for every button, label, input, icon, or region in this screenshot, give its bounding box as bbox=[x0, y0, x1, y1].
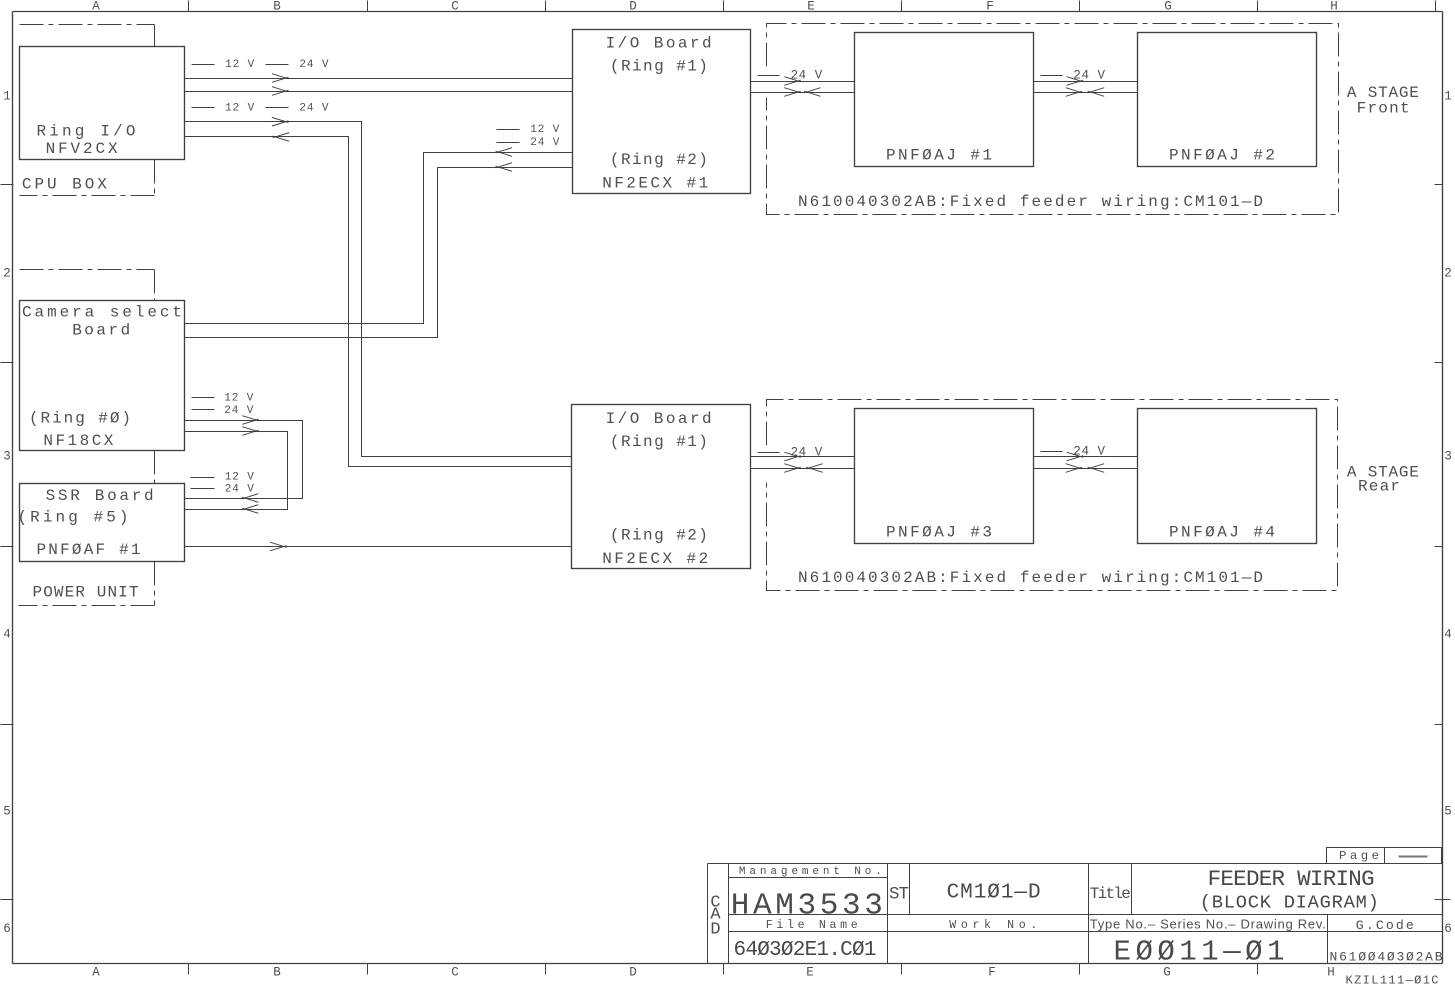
svg-text:Board: Board bbox=[72, 321, 130, 339]
svg-text:24 V: 24 V bbox=[1073, 69, 1105, 83]
svg-text:ST: ST bbox=[889, 885, 909, 905]
svg-text:(Ring #2): (Ring #2) bbox=[610, 151, 708, 169]
svg-text:C: C bbox=[451, 0, 459, 14]
svg-text:Management No.: Management No. bbox=[739, 866, 882, 878]
svg-text:12 V: 12 V bbox=[224, 393, 254, 405]
svg-text:5: 5 bbox=[1444, 805, 1452, 819]
svg-text:A: A bbox=[92, 966, 100, 980]
svg-text:12 V: 12 V bbox=[225, 472, 255, 484]
svg-text:3: 3 bbox=[1444, 450, 1452, 464]
svg-text:PNFØAJ #3: PNFØAJ #3 bbox=[886, 524, 992, 542]
svg-text:(Ring #Ø): (Ring #Ø) bbox=[29, 409, 131, 427]
svg-text:NF2ECX #2: NF2ECX #2 bbox=[602, 550, 708, 568]
svg-text:(Ring #1): (Ring #1) bbox=[610, 58, 708, 76]
svg-text:PNFØAF #1: PNFØAF #1 bbox=[37, 541, 141, 559]
svg-text:NF2ECX #1: NF2ECX #1 bbox=[602, 175, 708, 193]
svg-text:64Ø3Ø2E1.CØ1: 64Ø3Ø2E1.CØ1 bbox=[734, 939, 877, 962]
svg-text:H: H bbox=[1330, 0, 1338, 14]
svg-text:I/O Board: I/O Board bbox=[606, 410, 712, 428]
svg-text:PNFØAJ #4: PNFØAJ #4 bbox=[1169, 524, 1275, 542]
svg-text:FEEDER WIRING: FEEDER WIRING bbox=[1208, 866, 1375, 892]
svg-text:12 V: 12 V bbox=[225, 103, 255, 115]
svg-text:1: 1 bbox=[3, 90, 11, 104]
svg-text:Rear: Rear bbox=[1358, 477, 1400, 495]
svg-text:6: 6 bbox=[3, 922, 11, 936]
svg-text:A: A bbox=[92, 0, 100, 14]
svg-text:HAM3533: HAM3533 bbox=[731, 888, 883, 923]
svg-text:4: 4 bbox=[3, 628, 11, 642]
svg-text:POWER UNIT: POWER UNIT bbox=[33, 584, 139, 602]
svg-text:E: E bbox=[806, 966, 814, 980]
svg-text:CM1Ø1—D: CM1Ø1—D bbox=[947, 881, 1041, 904]
svg-text:(Ring #1): (Ring #1) bbox=[610, 433, 708, 451]
svg-text:B: B bbox=[273, 966, 281, 980]
svg-text:6: 6 bbox=[1444, 922, 1452, 936]
svg-text:(BLOCK DIAGRAM): (BLOCK DIAGRAM) bbox=[1200, 892, 1379, 914]
svg-text:G.Code: G.Code bbox=[1356, 918, 1414, 933]
svg-text:N610040302AB:Fixed feeder wiri: N610040302AB:Fixed feeder wiring:CM101—D bbox=[798, 193, 1263, 211]
svg-text:E: E bbox=[807, 0, 815, 14]
svg-text:CPU BOX: CPU BOX bbox=[22, 176, 107, 194]
svg-text:24 V: 24 V bbox=[224, 405, 254, 417]
svg-text:File Name: File Name bbox=[766, 919, 858, 932]
svg-text:5: 5 bbox=[3, 805, 11, 819]
svg-text:Title: Title bbox=[1090, 885, 1131, 903]
svg-text:24 V: 24 V bbox=[225, 483, 255, 495]
svg-text:(Ring #5): (Ring #5) bbox=[18, 509, 129, 527]
svg-text:N610040302AB:Fixed feeder wiri: N610040302AB:Fixed feeder wiring:CM101—D bbox=[798, 569, 1263, 587]
svg-text:24 V: 24 V bbox=[530, 137, 560, 149]
svg-text:12 V: 12 V bbox=[225, 59, 255, 71]
svg-text:24 V: 24 V bbox=[791, 445, 823, 459]
svg-text:12 V: 12 V bbox=[530, 124, 560, 136]
svg-text:24 V: 24 V bbox=[791, 69, 823, 83]
svg-text:1: 1 bbox=[1444, 90, 1452, 104]
svg-text:D: D bbox=[710, 921, 720, 940]
svg-text:2: 2 bbox=[3, 267, 11, 281]
svg-text:I/O Board: I/O Board bbox=[606, 34, 712, 52]
svg-text:Page: Page bbox=[1339, 849, 1379, 863]
svg-text:B: B bbox=[273, 0, 281, 14]
svg-text:4: 4 bbox=[1444, 628, 1452, 642]
svg-text:Front: Front bbox=[1357, 99, 1410, 117]
svg-text:G: G bbox=[1164, 0, 1172, 14]
svg-text:C: C bbox=[451, 966, 459, 980]
svg-text:PNFØAJ #2: PNFØAJ #2 bbox=[1169, 147, 1275, 165]
svg-text:F: F bbox=[986, 0, 994, 14]
svg-text:SSR Board: SSR Board bbox=[46, 487, 154, 505]
svg-text:H: H bbox=[1327, 966, 1335, 980]
svg-text:3: 3 bbox=[3, 450, 11, 464]
svg-text:N61ØØ4Ø3Ø2AB: N61ØØ4Ø3Ø2AB bbox=[1330, 950, 1443, 965]
svg-text:24 V: 24 V bbox=[299, 59, 329, 71]
svg-text:24 V: 24 V bbox=[1073, 445, 1105, 459]
svg-text:Work No.: Work No. bbox=[949, 919, 1037, 932]
svg-text:24 V: 24 V bbox=[299, 103, 329, 115]
svg-text:2: 2 bbox=[1444, 267, 1452, 281]
svg-text:KZIL111—Ø1C: KZIL111—Ø1C bbox=[1346, 974, 1439, 986]
svg-text:Type No.– Series No.– Drawing: Type No.– Series No.– Drawing Rev. bbox=[1090, 917, 1326, 932]
svg-text:PNFØAJ #1: PNFØAJ #1 bbox=[886, 147, 992, 165]
svg-text:D: D bbox=[629, 966, 637, 980]
svg-text:D: D bbox=[629, 0, 637, 14]
svg-text:(Ring #2): (Ring #2) bbox=[610, 527, 708, 545]
svg-text:F: F bbox=[988, 966, 996, 980]
